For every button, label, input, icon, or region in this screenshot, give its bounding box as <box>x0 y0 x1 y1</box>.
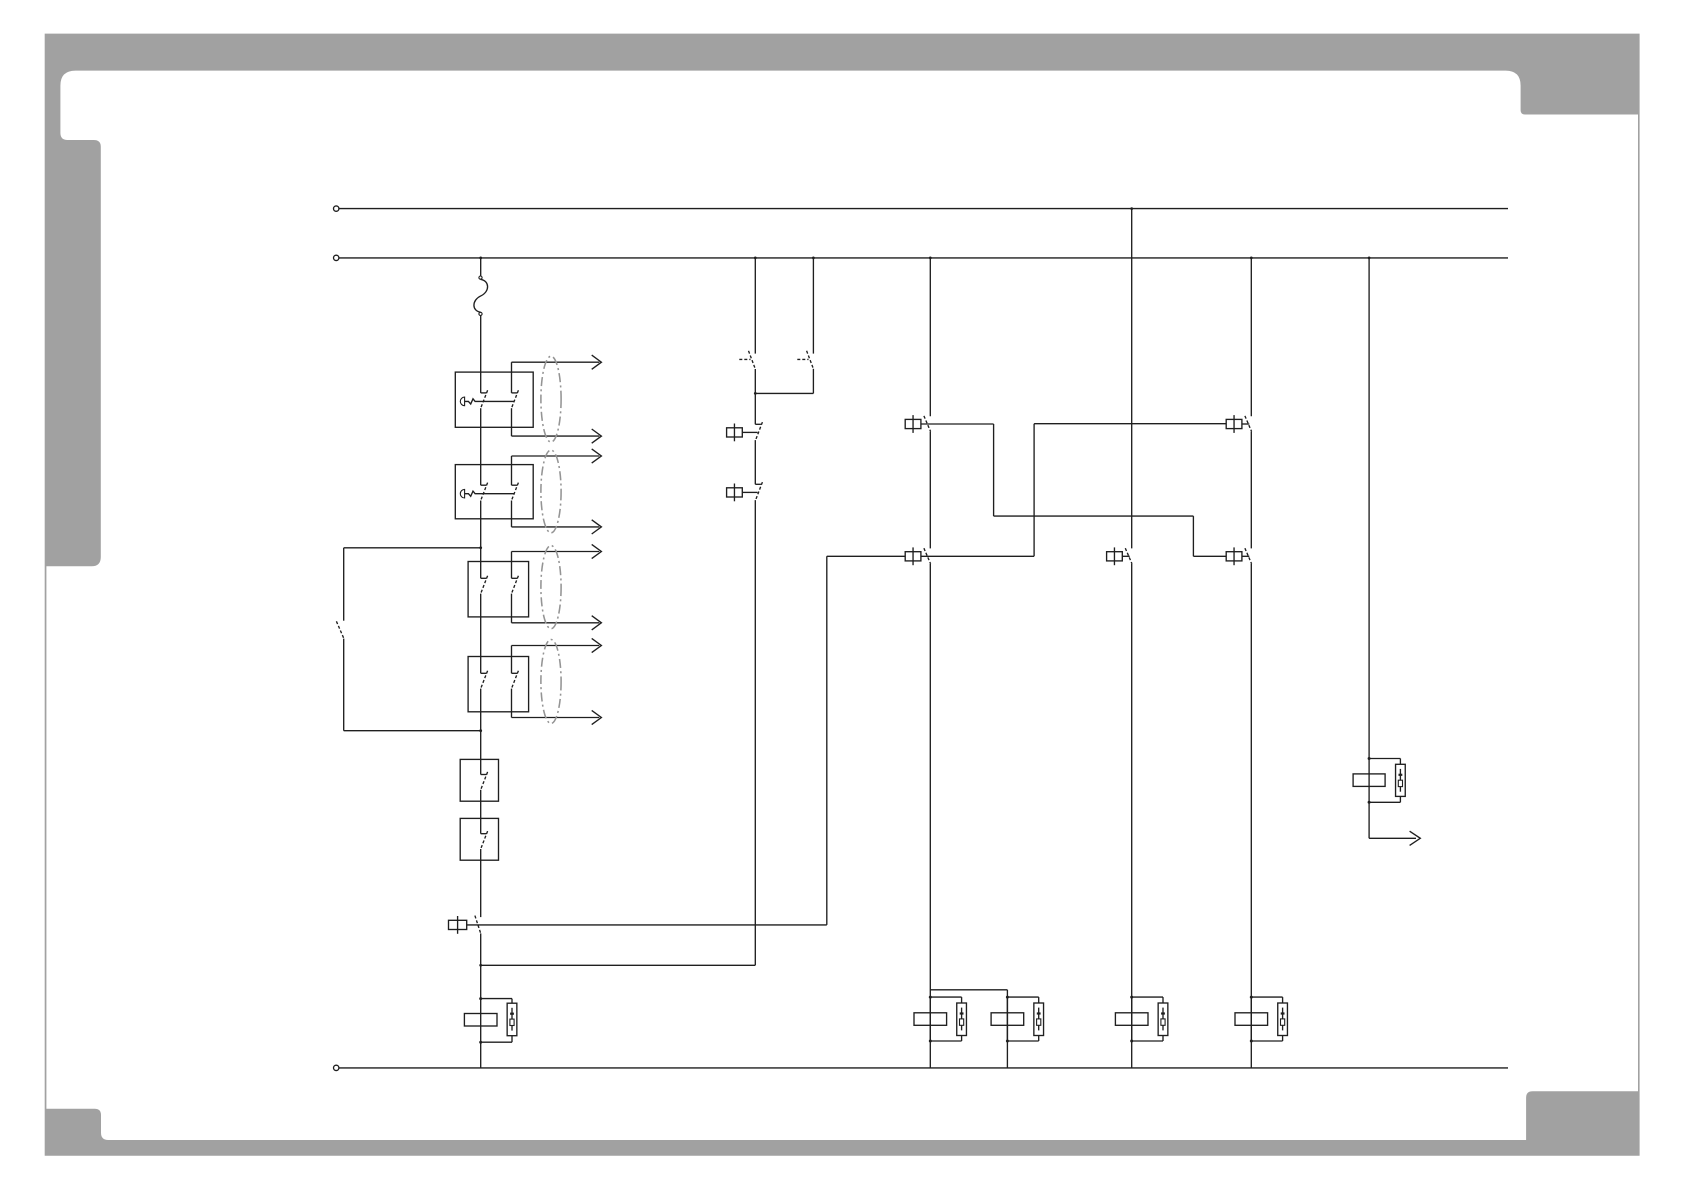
bypass wire left upper <box>343 548 345 621</box>
wire rail-755 T2-wire2 <box>754 500 756 965</box>
wire rail-A S1-S2 <box>929 432 931 549</box>
junction line2/rail-L <box>479 257 482 260</box>
connector switch C1 blade <box>475 916 481 934</box>
wire S2 up x=1034.1 <box>1033 424 1035 557</box>
bus line 2 <box>339 257 1508 259</box>
thermal fuse F1 <box>479 276 482 279</box>
bus line 1 (top) <box>339 208 1508 210</box>
wire to S4 box <box>1193 555 1226 557</box>
relay R4 coil + snubber <box>1250 997 1252 1041</box>
wire rail-L to block1 <box>480 316 482 393</box>
wire rail-C upper <box>1131 209 1133 549</box>
wire rail-A lower <box>929 564 931 1068</box>
door switch D2 link tick <box>797 358 808 360</box>
wire C1 stub to x=826.8 <box>467 924 827 926</box>
wire rail-L junction-block3 <box>480 548 482 579</box>
thermostat T1 <box>755 423 761 425</box>
bottom bus line <box>339 1067 1508 1069</box>
bypass wire top <box>344 547 481 549</box>
junction rail-755 <box>754 392 757 395</box>
wire rail-755 T1-T2 <box>754 440 756 484</box>
relay R5 coil + snubber <box>1368 759 1370 803</box>
wire rail-R arrow <box>1369 837 1416 839</box>
switch block SW3 (box, linked contacts, arrows, ellipse) <box>468 562 528 617</box>
door-lock switch block SW2 (box, key, linked contacts, arrows, ellipse) <box>455 465 533 519</box>
junction line2/rail-R <box>1368 257 1371 260</box>
wire rail-813 lower <box>812 369 814 394</box>
wire rail-L upper <box>480 258 482 276</box>
wire rail-C lower <box>1131 564 1133 1068</box>
terminal L (line 1) <box>334 206 339 211</box>
wire unit2 vertical <box>1006 990 1008 1068</box>
contact S5 <box>1107 552 1123 561</box>
wire rail-B S3-S4 <box>1250 432 1252 549</box>
contact S3 <box>1226 419 1242 428</box>
contact S2 <box>905 552 921 561</box>
wire1 horizontal to S2 box <box>827 555 906 557</box>
relay R2 coil + snubber <box>1006 997 1008 1041</box>
wire S1 down x=993.6 <box>993 424 995 516</box>
wire2 horizontal to rail-755 <box>481 964 756 966</box>
wire rail-B lower <box>1250 564 1252 1068</box>
link rail-A to unit2 <box>930 989 1007 991</box>
junction line2/rail-A <box>929 257 932 260</box>
wire to S3 box <box>1034 423 1226 425</box>
wire1 vertical x=826.8 <box>826 556 828 925</box>
door-lock switch block SW1 (box, key, linked contacts, arrows, ellipse) <box>455 372 533 427</box>
wire rail-L C1-junction <box>480 933 482 965</box>
junction line1/rail-C <box>1130 207 1133 210</box>
bypass switch S-bypass <box>336 621 344 638</box>
connector switch C1 (operator box) <box>449 920 467 929</box>
door switch D2 blade <box>807 351 814 369</box>
junction line2/rail-755 <box>754 257 757 260</box>
contact S1 <box>905 419 921 428</box>
junction rail-L/bypass bottom <box>479 729 482 732</box>
wire rail-L block4-SA <box>480 689 482 775</box>
wire rail-A upper <box>929 258 931 416</box>
relay RL coil + snubber <box>480 999 482 1043</box>
wire rail-R lower <box>1368 802 1370 838</box>
junction line2/rail-813 <box>812 257 815 260</box>
switch box SB <box>460 818 498 860</box>
junction line2/rail-B <box>1250 257 1253 260</box>
bypass wire bottom <box>344 730 481 732</box>
wire rail-B upper <box>1250 258 1252 416</box>
wire rail-L SA-SB <box>480 790 482 834</box>
wire rail-L block3-block4 <box>480 594 482 674</box>
switch box SA <box>460 759 498 801</box>
wire down x=1193.4 <box>1192 516 1194 556</box>
relay R3 coil + snubber <box>1131 997 1133 1041</box>
wire rail-755 blade-junction <box>754 369 756 393</box>
junction rail-L/bypass top <box>479 546 482 549</box>
wire rail-L junction-relayL <box>480 965 482 998</box>
terminal E (bottom bus) <box>334 1065 339 1070</box>
wire rail-L block2-junction <box>480 501 482 548</box>
wire rail-L relay-bus <box>480 1042 482 1068</box>
thermostat T2 <box>755 483 761 485</box>
wire rail-755 to T1 <box>754 393 756 424</box>
door switch D1 blade <box>749 351 756 369</box>
relay R1 coil + snubber <box>929 997 931 1041</box>
wire rail-813 upper <box>812 258 814 354</box>
terminal N (line 2) <box>334 255 339 260</box>
wire rail-R upper <box>1368 258 1370 759</box>
door switch D1 link tick <box>739 358 750 360</box>
wire D1-D2 join <box>755 392 813 394</box>
junction rail-L/wire2 <box>479 964 482 967</box>
contact S4 <box>1226 552 1242 561</box>
wire rail-L block1-block2 <box>480 408 482 485</box>
wire rail-L SB-C1 <box>480 849 482 917</box>
wire rail-755 upper <box>754 258 756 354</box>
switch block SW4 (box, linked contacts, arrows, ellipse) <box>468 657 528 712</box>
bypass wire left lower <box>343 639 345 731</box>
wire cross y=516.1 <box>994 515 1194 517</box>
